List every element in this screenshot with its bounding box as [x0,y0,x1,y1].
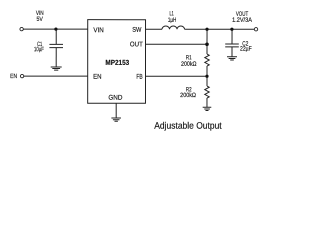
svg-text:10µF: 10µF [34,46,44,53]
svg-text:MP2153: MP2153 [105,58,129,67]
svg-text:FB: FB [136,74,143,81]
svg-text:VIN: VIN [93,27,103,34]
svg-text:200kΩ: 200kΩ [180,92,196,99]
svg-text:SW: SW [132,27,142,34]
svg-text:22µF: 22µF [240,45,252,52]
svg-text:1µH: 1µH [168,17,177,24]
svg-text:1.2V/3A: 1.2V/3A [232,17,253,24]
svg-text:200kΩ: 200kΩ [181,61,197,68]
svg-text:EN: EN [93,74,102,81]
svg-text:EN: EN [10,73,17,80]
svg-text:OUT: OUT [130,41,143,48]
svg-text:GND: GND [108,95,122,102]
svg-text:Adjustable Output: Adjustable Output [154,120,222,131]
svg-text:5V: 5V [37,16,44,23]
